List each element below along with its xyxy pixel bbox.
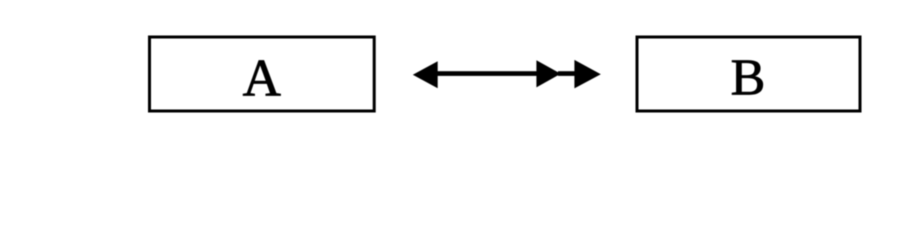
wire: arrow shaft B-side <box>558 71 577 76</box>
box B <box>637 37 860 111</box>
arrowhead right inner (toward B) <box>536 60 560 87</box>
svg-text:B: B <box>731 50 766 107</box>
box A <box>150 37 375 111</box>
arrowhead left (toward A) <box>413 61 438 88</box>
arrowhead right outer (toward B) <box>574 60 600 89</box>
svg-text:A: A <box>243 49 281 107</box>
wire: arrow shaft A-side <box>436 71 538 76</box>
